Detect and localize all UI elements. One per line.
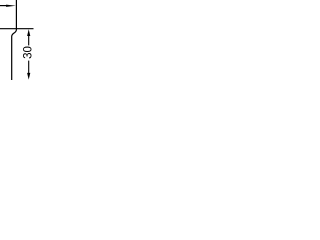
svg-text:30: 30 [22,46,34,59]
